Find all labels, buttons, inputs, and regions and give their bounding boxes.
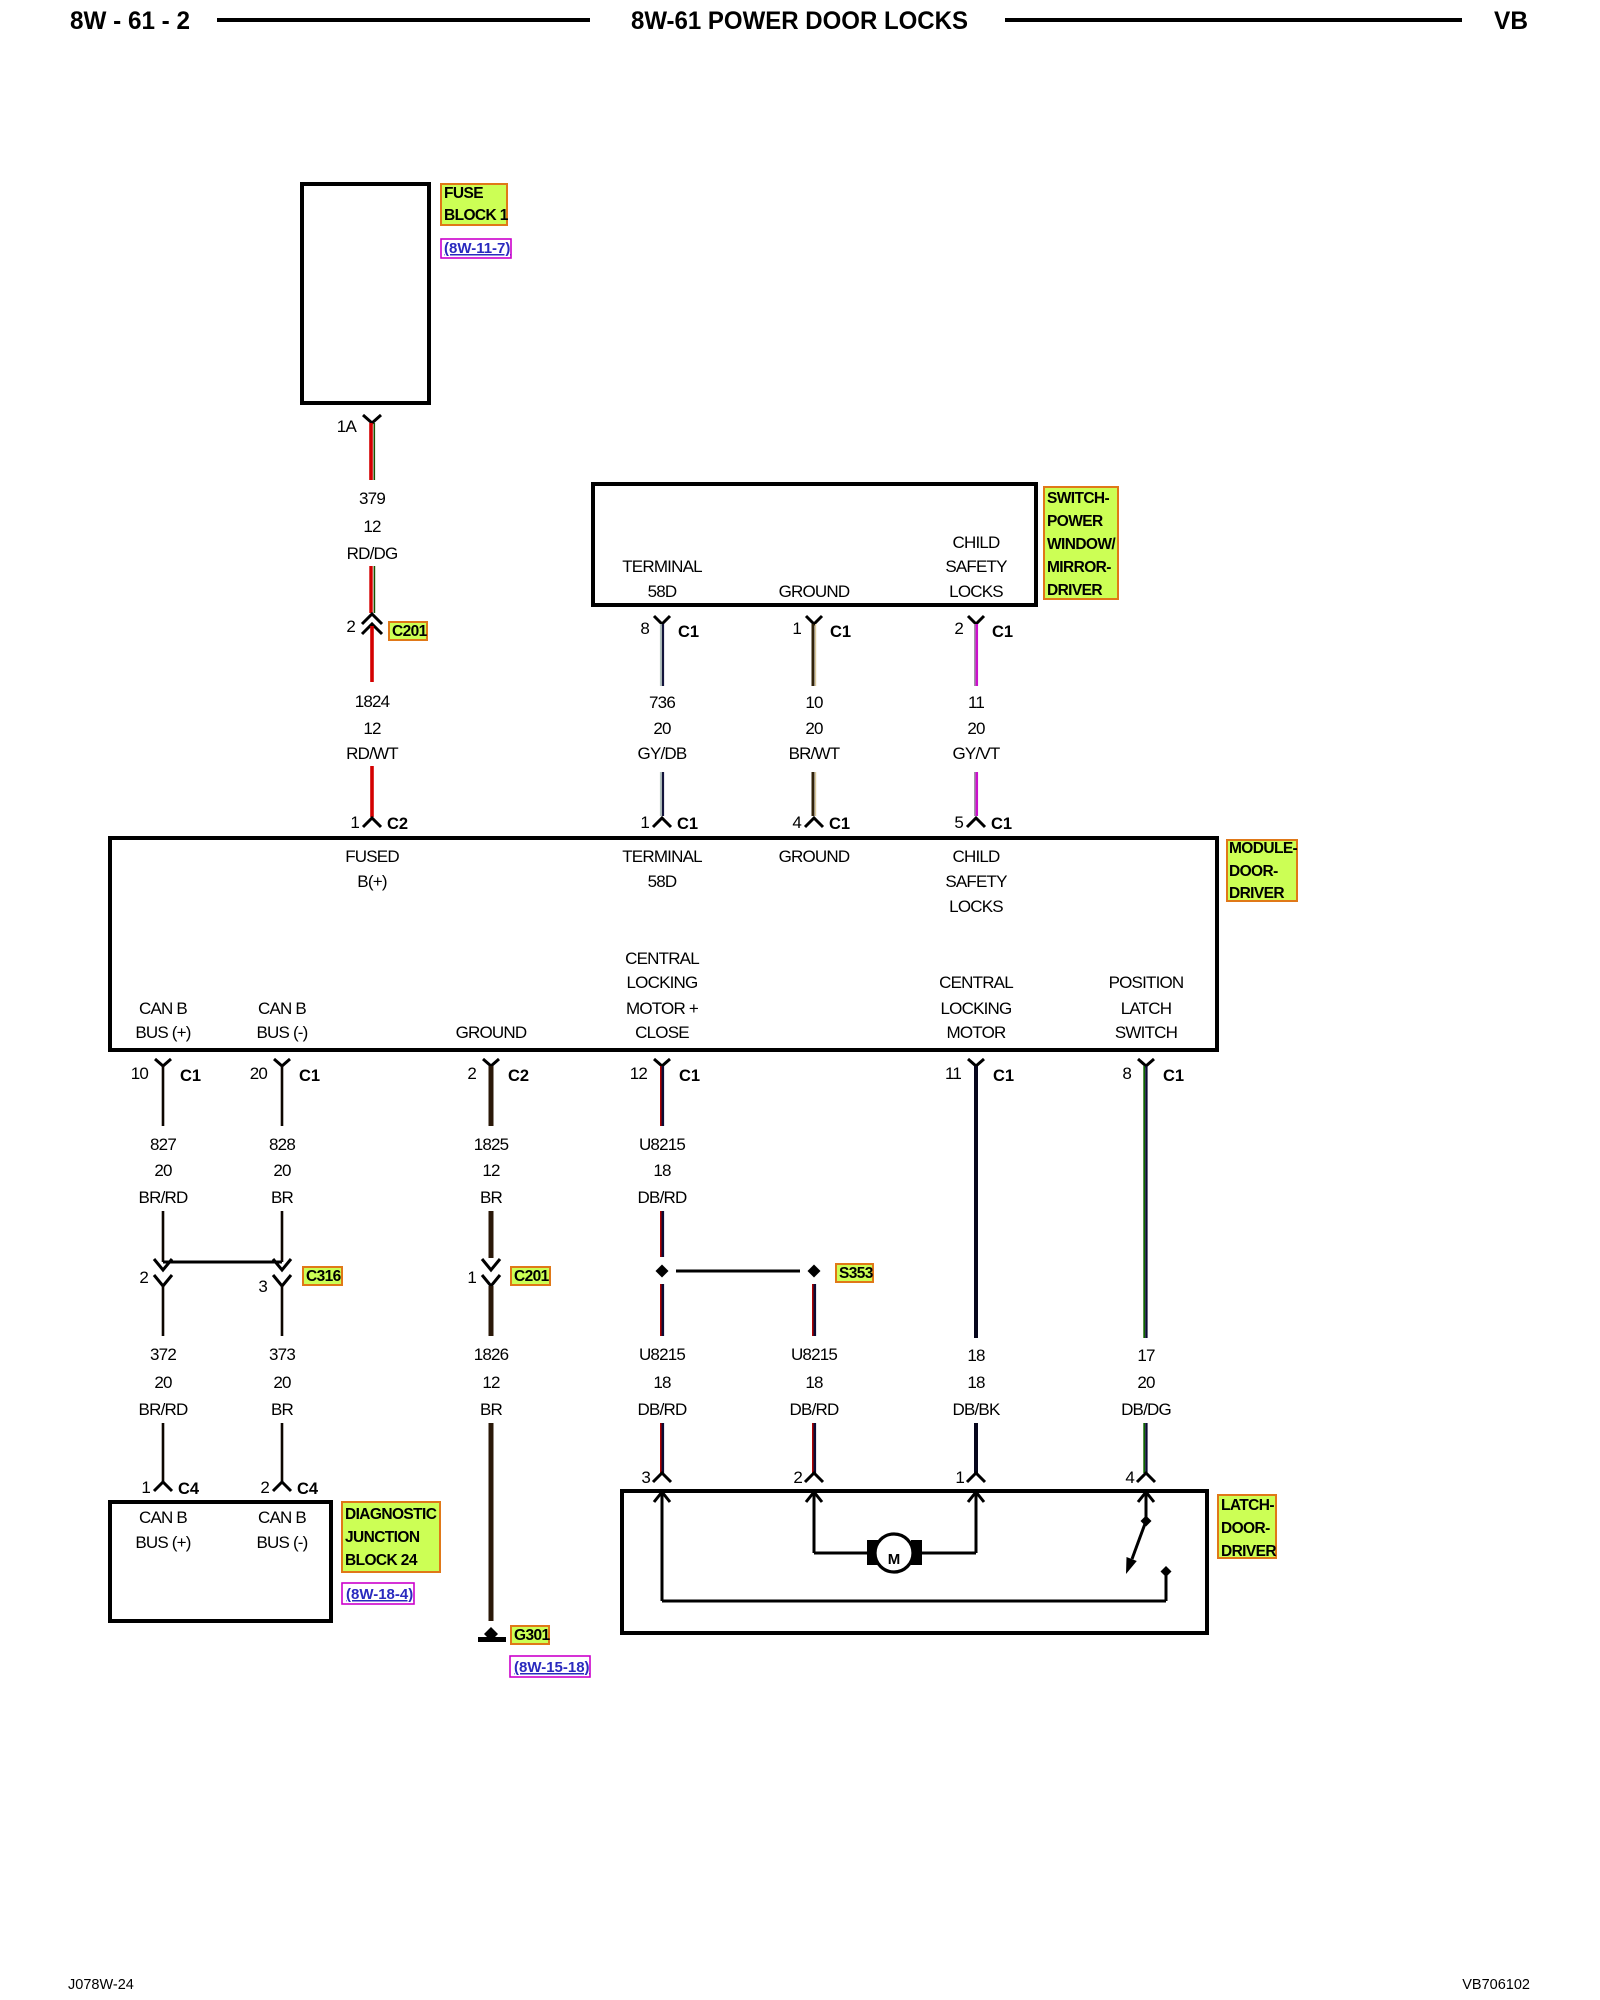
module label POSITION LATCH SWITCH <box>1109 973 1184 1042</box>
svg-text:CENTRAL: CENTRAL <box>939 973 1013 992</box>
pin 8 C1 switch <box>640 616 699 641</box>
latch switch pivot node <box>1141 1516 1152 1527</box>
wire 1825 BR lower segment <box>489 1211 494 1258</box>
svg-text:1: 1 <box>141 1478 150 1497</box>
wire 827 BR/RD upper segment <box>162 1066 165 1126</box>
wire 372 BR/RD upper segment <box>162 1286 165 1336</box>
wire 372 BR/RD lower segment <box>162 1423 165 1482</box>
svg-text:DIAGNOSTIC: DIAGNOSTIC <box>345 1506 437 1523</box>
pin 4 C1 module ground <box>792 813 850 833</box>
wire 1824 RD/WT lower segment <box>370 766 374 817</box>
wire label 1826 12 BR <box>474 1345 509 1419</box>
svg-text:J078W-24: J078W-24 <box>68 1977 134 1993</box>
svg-text:BR/WT: BR/WT <box>789 744 840 763</box>
pin 3 latch <box>641 1468 671 1487</box>
svg-text:LATCH-: LATCH- <box>1221 1497 1274 1514</box>
svg-text:379: 379 <box>359 489 385 508</box>
svg-text:372: 372 <box>150 1345 176 1364</box>
svg-text:BUS (+): BUS (+) <box>135 1023 190 1042</box>
svg-text:20: 20 <box>653 719 671 738</box>
label C201 <box>389 622 428 640</box>
connector C316 pin 3 symbol <box>258 1259 291 1296</box>
svg-text:LOCKS: LOCKS <box>949 582 1003 601</box>
svg-text:3: 3 <box>258 1277 267 1296</box>
wire 827 BR/RD lower segment <box>162 1211 165 1262</box>
svg-text:11: 11 <box>968 693 984 712</box>
label C201 ground <box>511 1267 550 1285</box>
svg-text:TERMINAL: TERMINAL <box>622 557 702 576</box>
svg-text:C1: C1 <box>991 815 1012 833</box>
svg-text:BUS (-): BUS (-) <box>256 1533 307 1552</box>
svg-text:12: 12 <box>363 719 381 738</box>
wire label 1825 12 BR <box>474 1135 509 1207</box>
svg-text:2: 2 <box>139 1268 148 1287</box>
svg-text:DOOR-: DOOR- <box>1221 1520 1270 1537</box>
svg-text:DRIVER: DRIVER <box>1047 582 1102 599</box>
wire U8215 DB/RD segment c <box>661 1284 663 1336</box>
pin 1 C2 module <box>350 813 408 833</box>
svg-text:2: 2 <box>954 619 963 638</box>
svg-text:1: 1 <box>350 813 359 832</box>
svg-text:GROUND: GROUND <box>456 1023 527 1042</box>
svg-text:CAN B: CAN B <box>258 1508 306 1527</box>
wire label 18 18 DB/BK <box>952 1346 1000 1419</box>
wire 379 RD/DG upper segment <box>371 423 374 480</box>
svg-text:20: 20 <box>805 719 823 738</box>
svg-text:C1: C1 <box>830 623 851 641</box>
svg-text:BR: BR <box>271 1188 294 1207</box>
svg-text:1824: 1824 <box>355 692 390 711</box>
svg-text:CHILD: CHILD <box>952 847 1000 866</box>
svg-text:C1: C1 <box>677 815 698 833</box>
svg-text:2: 2 <box>793 1468 802 1487</box>
pin 2 C1 switch child locks <box>954 616 1013 641</box>
module label TERMINAL 58D <box>622 847 702 891</box>
svg-text:C201: C201 <box>392 623 428 640</box>
junction bus wire C316 <box>163 1261 282 1264</box>
svg-text:20: 20 <box>1137 1373 1155 1392</box>
svg-text:GY/DB: GY/DB <box>638 744 687 763</box>
svg-text:CAN B: CAN B <box>258 999 306 1018</box>
svg-text:LOCKING: LOCKING <box>627 973 698 992</box>
svg-text:SAFETY: SAFETY <box>945 557 1007 576</box>
svg-text:12: 12 <box>482 1161 500 1180</box>
svg-text:18: 18 <box>967 1373 985 1392</box>
svg-text:12: 12 <box>630 1064 648 1083</box>
wire bottom rail <box>662 1600 1166 1603</box>
svg-text:U8215: U8215 <box>639 1345 685 1364</box>
svg-text:SWITCH: SWITCH <box>1115 1023 1177 1042</box>
svg-text:CENTRAL: CENTRAL <box>625 949 699 968</box>
svg-text:C4: C4 <box>297 1480 319 1498</box>
pin 20 C1 can b minus <box>250 1059 320 1085</box>
svg-text:POWER: POWER <box>1047 513 1103 530</box>
svg-text:20: 20 <box>273 1161 291 1180</box>
wire label U8215 18 DB/RD a <box>638 1135 687 1207</box>
svg-text:1: 1 <box>640 813 649 832</box>
label G301 <box>511 1626 550 1644</box>
svg-text:M: M <box>888 1551 901 1568</box>
diagnostic junction block box <box>110 1502 331 1621</box>
reference 8W-11-7 <box>441 239 511 258</box>
svg-text:828: 828 <box>269 1135 295 1154</box>
junction block label CAN B BUS (+) <box>135 1508 190 1552</box>
wire label 10 20 BR/WT <box>789 693 840 763</box>
splice S353 node left <box>656 1265 669 1278</box>
svg-text:U8215: U8215 <box>639 1135 685 1154</box>
svg-text:1825: 1825 <box>474 1135 509 1154</box>
connector C201 pin 1 symbol <box>467 1259 500 1287</box>
svg-text:18: 18 <box>805 1373 823 1392</box>
connector C316 pin 2 symbol <box>139 1259 172 1287</box>
svg-text:20: 20 <box>250 1064 268 1083</box>
module label CHILD SAFETY LOCKS <box>945 847 1007 916</box>
svg-text:C1: C1 <box>299 1067 320 1085</box>
pin 2 C4 junction block <box>260 1478 319 1498</box>
svg-text:DB/RD: DB/RD <box>790 1400 839 1419</box>
svg-text:20: 20 <box>273 1373 291 1392</box>
wire 10 BR/WT upper segment <box>813 624 816 686</box>
latch switch lever <box>1126 1521 1146 1574</box>
svg-text:JUNCTION: JUNCTION <box>345 1529 420 1546</box>
wire label U8215 18 DB/RD b <box>638 1345 687 1419</box>
motor M <box>867 1534 922 1572</box>
svg-text:58D: 58D <box>648 872 677 891</box>
svg-text:C4: C4 <box>178 1480 200 1498</box>
pin 2 C2 ground module <box>467 1059 529 1085</box>
pin 5 C1 module child locks <box>954 813 1012 833</box>
svg-text:1A: 1A <box>337 417 358 436</box>
label LATCH-DOOR-DRIVER <box>1218 1495 1276 1560</box>
svg-text:12: 12 <box>482 1373 500 1392</box>
svg-text:10: 10 <box>805 693 823 712</box>
reference 8W-15-18 <box>510 1656 590 1677</box>
svg-text:DRIVER: DRIVER <box>1221 1543 1276 1560</box>
wire 736 GY/DB upper segment <box>661 624 663 686</box>
module label CENTRAL LOCKING MOTOR + CLOSE <box>625 949 699 1042</box>
svg-text:SWITCH-: SWITCH- <box>1047 490 1110 507</box>
svg-text:VB706102: VB706102 <box>1462 1977 1530 1993</box>
svg-text:U8215: U8215 <box>791 1345 837 1364</box>
wire 18 DB/BK long segment <box>974 1066 978 1338</box>
pin 1A fuse block <box>337 415 381 436</box>
wire label 373 20 BR <box>269 1345 295 1419</box>
svg-text:1826: 1826 <box>474 1345 509 1364</box>
connector C201 pin 2 symbol <box>346 614 382 636</box>
pin 1 latch <box>955 1468 985 1487</box>
pin 10 C1 can b plus <box>131 1059 201 1085</box>
svg-text:17: 17 <box>1137 1346 1155 1365</box>
svg-text:TERMINAL: TERMINAL <box>622 847 702 866</box>
header rule left <box>217 18 590 22</box>
svg-text:8W-61 POWER DOOR LOCKS: 8W-61 POWER DOOR LOCKS <box>631 7 968 35</box>
wire label 379 12 RD/DG <box>347 489 398 563</box>
label DIAGNOSTIC JUNCTION BLOCK 24 <box>342 1502 440 1572</box>
svg-text:827: 827 <box>150 1135 176 1154</box>
svg-text:C1: C1 <box>678 623 699 641</box>
wire U8215 DB/RD segment d <box>661 1423 663 1473</box>
svg-text:FUSED: FUSED <box>345 847 399 866</box>
svg-text:MODULE-: MODULE- <box>1229 840 1298 857</box>
svg-text:8: 8 <box>1122 1064 1131 1083</box>
wire label 736 20 GY/DB <box>638 693 687 763</box>
wire label 11 20 GY/VT <box>952 693 999 763</box>
label S353 <box>836 1264 874 1282</box>
module label CAN B BUS (-) <box>256 999 307 1042</box>
pin 12 C1 central locking motor close <box>630 1059 700 1085</box>
switch power window box <box>593 484 1036 605</box>
pin 1 C1 switch ground <box>792 616 851 641</box>
wire label 17 20 DB/DG <box>1121 1346 1171 1419</box>
svg-text:5: 5 <box>954 813 963 832</box>
pin 8 C1 position latch switch <box>1122 1059 1184 1085</box>
wire 11 GY/VT lower segment <box>974 772 976 816</box>
svg-text:3: 3 <box>641 1468 650 1487</box>
wire 10 BR/WT lower segment <box>813 772 816 816</box>
svg-text:G301: G301 <box>514 1627 550 1644</box>
latch pin 3 arrow <box>654 1492 670 1601</box>
svg-text:DB/RD: DB/RD <box>638 1188 687 1207</box>
wire contact to bottom rail <box>1165 1571 1168 1601</box>
wire label 827 20 BR/RD <box>139 1135 188 1207</box>
svg-text:POSITION: POSITION <box>1109 973 1184 992</box>
wire 373 BR upper segment <box>281 1286 284 1336</box>
svg-text:LOCKS: LOCKS <box>949 897 1003 916</box>
svg-text:(8W-18-4): (8W-18-4) <box>346 1586 413 1603</box>
pin 2 latch <box>793 1468 823 1487</box>
svg-text:20: 20 <box>154 1161 172 1180</box>
svg-text:BLOCK 24: BLOCK 24 <box>345 1552 418 1569</box>
pin 11 C1 central locking motor <box>945 1059 1014 1085</box>
wire 1825 BR upper segment <box>489 1066 494 1126</box>
svg-text:GROUND: GROUND <box>779 582 850 601</box>
wire label 828 20 BR <box>269 1135 295 1207</box>
svg-text:2: 2 <box>346 617 355 636</box>
svg-text:C1: C1 <box>829 815 850 833</box>
svg-text:MOTOR +: MOTOR + <box>626 999 699 1018</box>
svg-text:12: 12 <box>363 517 381 536</box>
pin 4 latch <box>1125 1468 1155 1487</box>
wire 1824 RD/WT upper segment <box>370 626 374 682</box>
wire 736 GY/DB lower segment <box>661 772 663 816</box>
svg-text:MOTOR: MOTOR <box>947 1023 1006 1042</box>
svg-text:B(+): B(+) <box>357 872 387 891</box>
wire motor to latch pin1 <box>918 1552 976 1555</box>
wire 1826 BR long segment to ground <box>489 1423 494 1621</box>
wire 828 BR upper segment <box>281 1066 284 1126</box>
module label CENTRAL LOCKING MOTOR <box>939 973 1013 1042</box>
wire 17 DB/DG lower segment <box>1144 1423 1146 1473</box>
svg-text:1: 1 <box>467 1268 476 1287</box>
svg-text:CAN B: CAN B <box>139 999 187 1018</box>
svg-text:C1: C1 <box>1163 1067 1184 1085</box>
module door driver box <box>110 838 1217 1050</box>
svg-text:BLOCK 1: BLOCK 1 <box>444 207 509 224</box>
svg-text:DRIVER: DRIVER <box>1229 885 1284 902</box>
svg-text:VB: VB <box>1494 7 1528 35</box>
reference 8W-18-4 <box>342 1583 414 1604</box>
svg-text:WINDOW/: WINDOW/ <box>1047 536 1116 553</box>
ground symbol G301 <box>478 1627 506 1642</box>
svg-text:8W - 61 - 2: 8W - 61 - 2 <box>70 7 190 35</box>
wire U8215 DB/RD branch segment b <box>813 1423 815 1473</box>
svg-text:58D: 58D <box>648 582 677 601</box>
svg-text:C1: C1 <box>993 1067 1014 1085</box>
svg-text:BR/RD: BR/RD <box>139 1400 188 1419</box>
junction block label CAN B BUS (-) <box>256 1508 307 1552</box>
svg-text:C2: C2 <box>387 815 408 833</box>
svg-text:RD/DG: RD/DG <box>347 544 398 563</box>
wire U8215 DB/RD segment a <box>661 1066 663 1126</box>
wire 1826 BR upper segment <box>489 1286 494 1336</box>
svg-text:SAFETY: SAFETY <box>945 872 1007 891</box>
svg-text:4: 4 <box>1125 1468 1134 1487</box>
svg-text:C316: C316 <box>306 1268 342 1285</box>
svg-text:DB/RD: DB/RD <box>638 1400 687 1419</box>
label SWITCH-POWER WINDOW/MIRROR-DRIVER <box>1044 487 1118 599</box>
wire label 1824 12 RD/WT <box>346 692 398 763</box>
label FUSE BLOCK 1 <box>441 184 509 225</box>
svg-text:4: 4 <box>792 813 801 832</box>
svg-text:(8W-15-18): (8W-15-18) <box>514 1659 590 1676</box>
latch pin 4 arrow <box>1138 1492 1154 1517</box>
wire U8215 DB/RD segment b <box>661 1211 663 1257</box>
svg-text:DB/DG: DB/DG <box>1121 1400 1171 1419</box>
module label CAN B BUS (+) <box>135 999 190 1042</box>
svg-text:(8W-11-7): (8W-11-7) <box>444 240 510 257</box>
svg-text:GY/VT: GY/VT <box>952 744 999 763</box>
svg-text:736: 736 <box>649 693 675 712</box>
svg-text:DB/BK: DB/BK <box>952 1400 1000 1419</box>
svg-text:RD/WT: RD/WT <box>346 744 398 763</box>
pin 1 C1 module terminal 58d <box>640 813 698 833</box>
latch door driver box <box>622 1491 1207 1633</box>
wire 379 RD/DG lower segment <box>371 566 374 613</box>
svg-text:C1: C1 <box>992 623 1013 641</box>
label C316 <box>303 1267 342 1285</box>
svg-text:CLOSE: CLOSE <box>635 1023 689 1042</box>
splice S353 bus wire <box>676 1270 800 1273</box>
svg-text:2: 2 <box>260 1478 269 1497</box>
splice S353 node right <box>808 1265 821 1278</box>
svg-text:BR/RD: BR/RD <box>139 1188 188 1207</box>
module label FUSED B(+) <box>345 847 399 891</box>
svg-text:BR: BR <box>271 1400 294 1419</box>
svg-text:C1: C1 <box>180 1067 201 1085</box>
svg-text:LOCKING: LOCKING <box>941 999 1012 1018</box>
svg-text:2: 2 <box>467 1064 476 1083</box>
header rule right <box>1005 18 1462 22</box>
svg-text:18: 18 <box>653 1373 671 1392</box>
label MODULE-DOOR-DRIVER <box>1227 840 1298 902</box>
svg-text:18: 18 <box>967 1346 985 1365</box>
svg-text:10: 10 <box>131 1064 149 1083</box>
switch label CHILD SAFETY LOCKS <box>945 533 1007 601</box>
svg-text:LATCH: LATCH <box>1121 999 1171 1018</box>
svg-text:11: 11 <box>945 1064 961 1083</box>
wire latch pin2 to motor <box>814 1552 868 1555</box>
latch pin 1 arrow <box>968 1492 984 1553</box>
wire 828 BR lower segment <box>281 1211 284 1262</box>
wire 18 DB/BK lower segment <box>974 1423 978 1473</box>
svg-text:C2: C2 <box>508 1067 529 1085</box>
latch switch contact node <box>1161 1566 1172 1577</box>
wire U8215 DB/RD branch segment a <box>813 1284 815 1336</box>
wire label U8215 18 DB/RD c <box>790 1345 839 1419</box>
svg-text:MIRROR-: MIRROR- <box>1047 559 1111 576</box>
wire label 372 20 BR/RD <box>139 1345 188 1419</box>
svg-text:C201: C201 <box>514 1268 550 1285</box>
svg-text:1: 1 <box>955 1468 964 1487</box>
svg-text:1: 1 <box>792 619 801 638</box>
latch pin 2 arrow <box>806 1492 822 1553</box>
svg-text:FUSE: FUSE <box>444 185 483 202</box>
svg-text:GROUND: GROUND <box>779 847 850 866</box>
svg-text:BR: BR <box>480 1400 503 1419</box>
svg-text:20: 20 <box>967 719 985 738</box>
fuse block 1 <box>302 184 429 403</box>
svg-text:BR: BR <box>480 1188 503 1207</box>
svg-text:C1: C1 <box>679 1067 700 1085</box>
svg-text:CAN B: CAN B <box>139 1508 187 1527</box>
switch label TERMINAL 58D <box>622 557 702 601</box>
svg-text:BUS (-): BUS (-) <box>256 1023 307 1042</box>
svg-text:18: 18 <box>653 1161 671 1180</box>
svg-text:20: 20 <box>154 1373 172 1392</box>
svg-text:373: 373 <box>269 1345 295 1364</box>
wire 373 BR lower segment <box>281 1423 284 1482</box>
svg-text:8: 8 <box>640 619 649 638</box>
svg-text:DOOR-: DOOR- <box>1229 863 1278 880</box>
svg-text:S353: S353 <box>839 1265 874 1282</box>
pin 1 C4 junction block <box>141 1478 200 1498</box>
svg-text:BUS (+): BUS (+) <box>135 1533 190 1552</box>
wire 17 DB/DG long segment <box>1144 1066 1146 1338</box>
wire 11 GY/VT upper segment <box>974 624 976 686</box>
svg-text:CHILD: CHILD <box>952 533 1000 552</box>
